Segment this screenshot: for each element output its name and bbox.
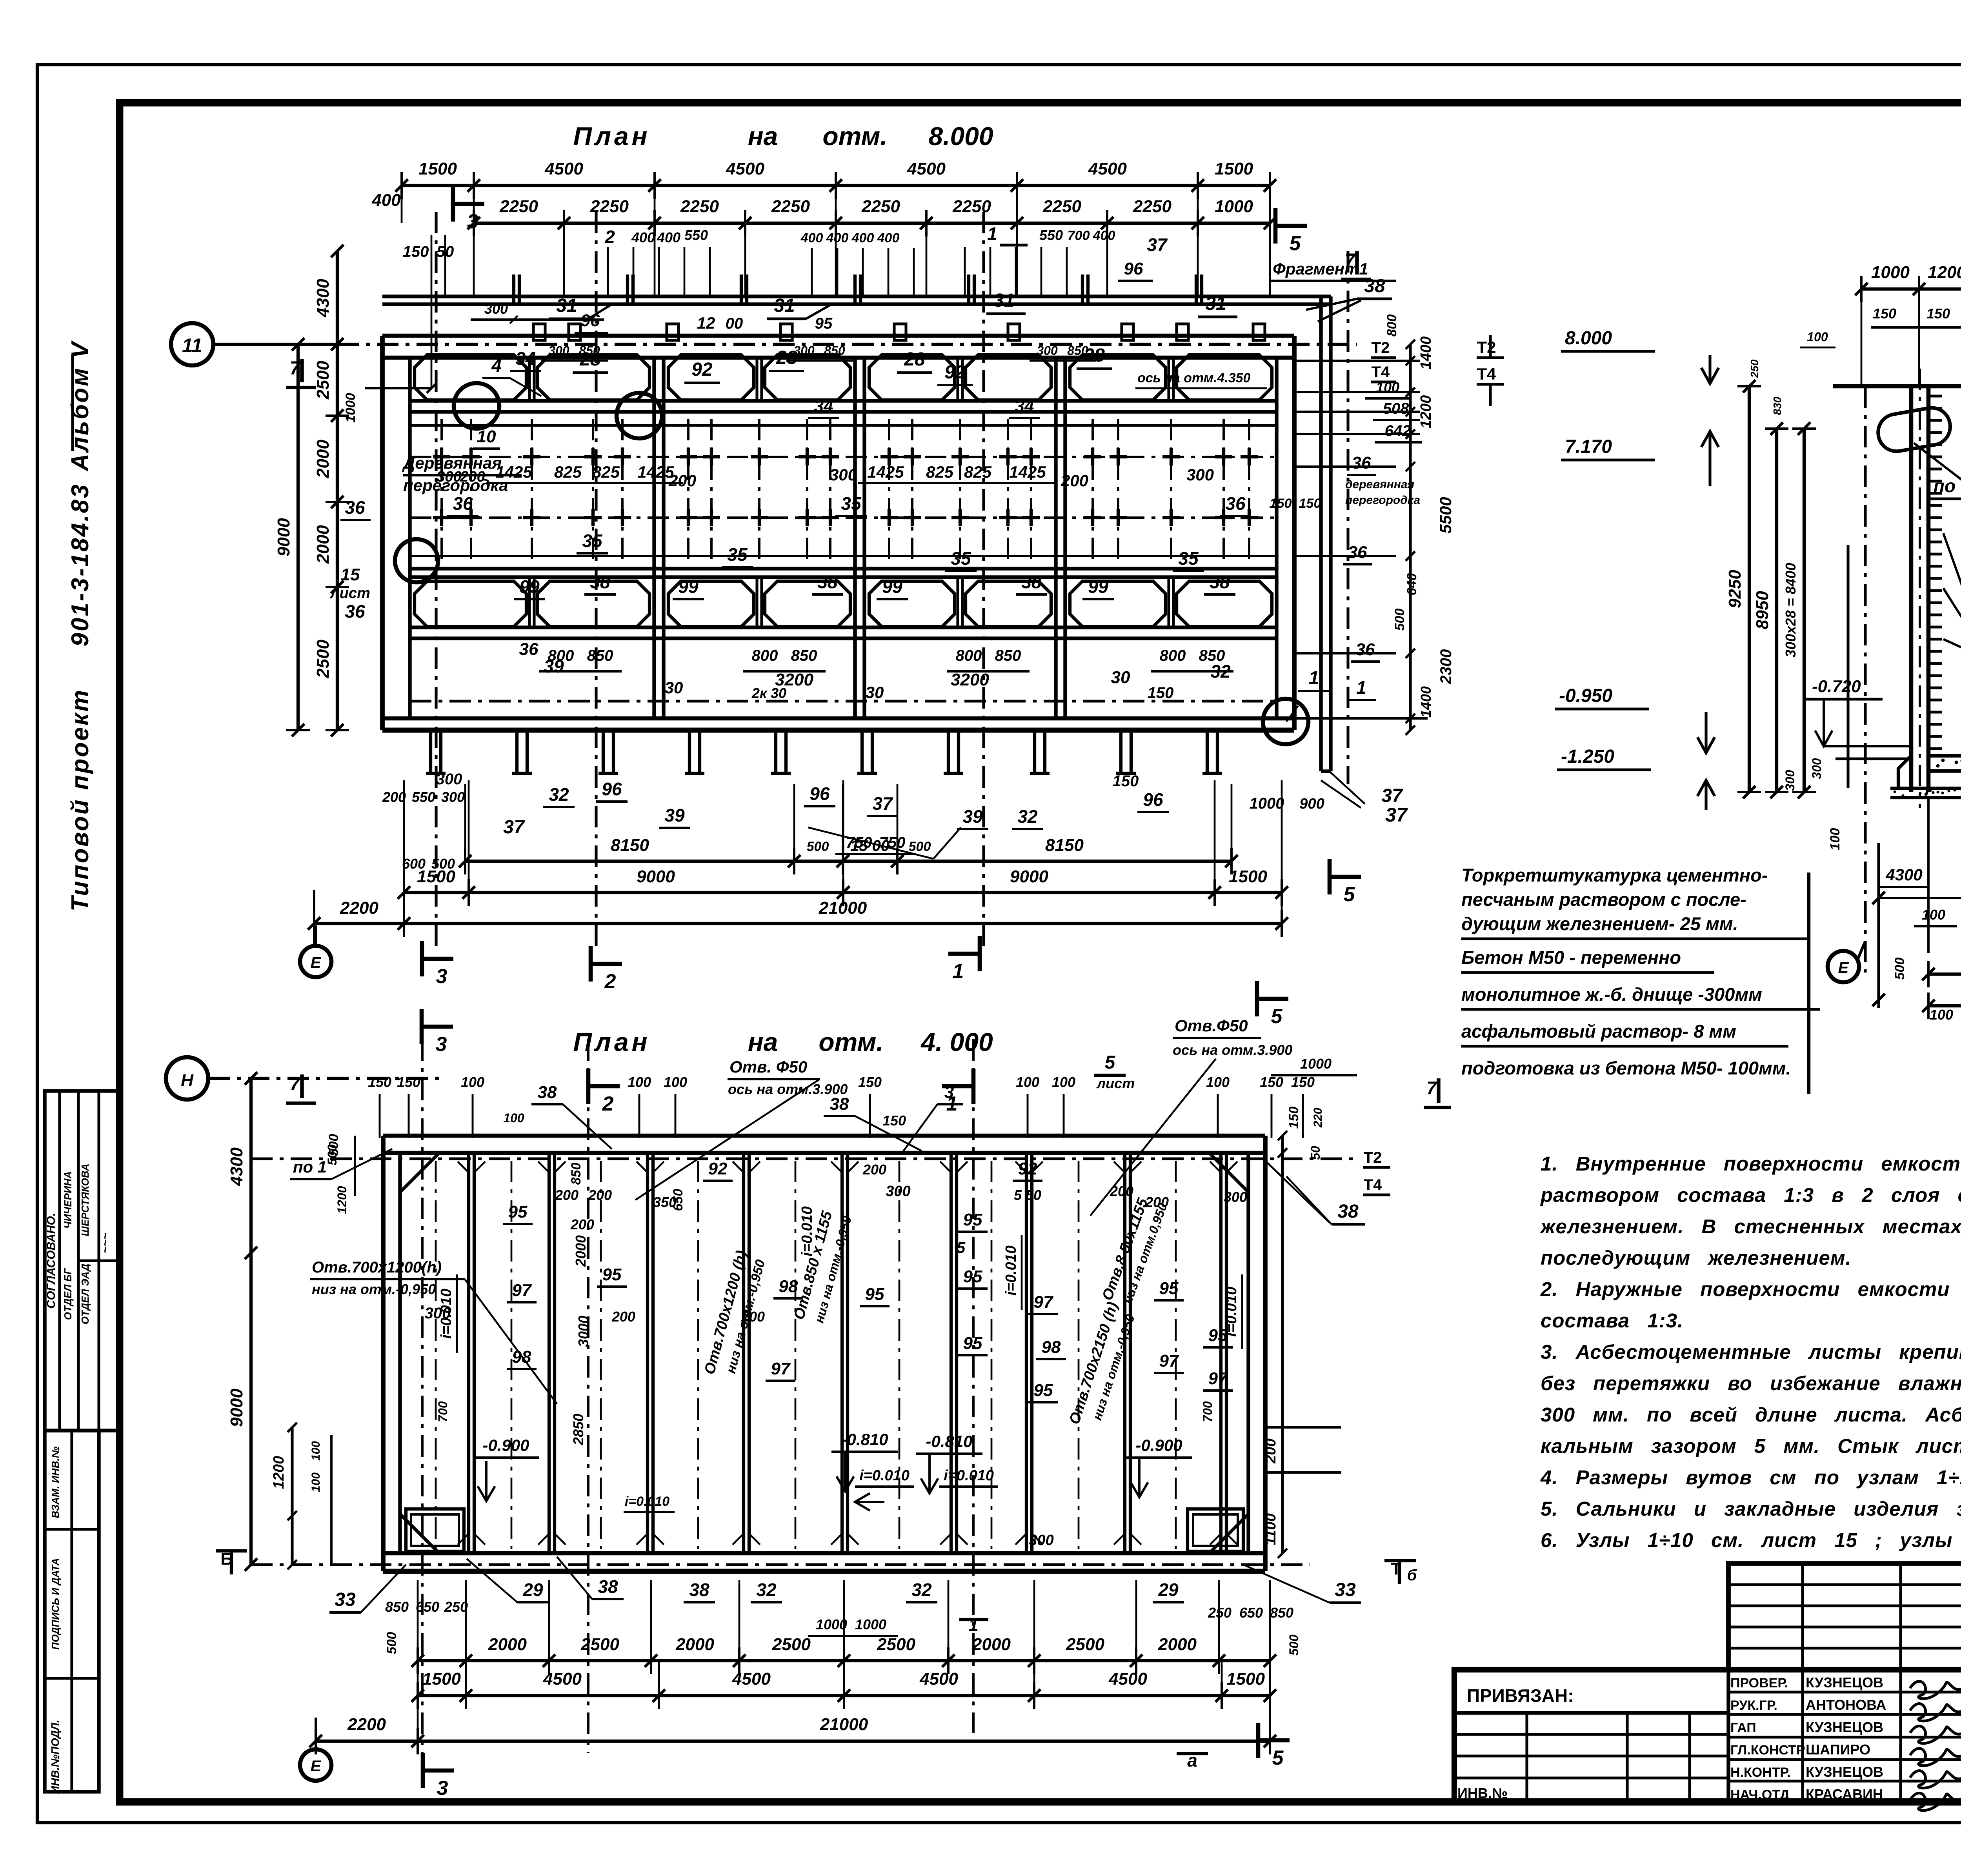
svg-text:21000: 21000	[820, 1715, 868, 1734]
svg-text:перегородка: перегородка	[1345, 494, 1420, 507]
svg-text:3: 3	[436, 1033, 447, 1056]
svg-text:2500: 2500	[580, 1635, 619, 1654]
svg-text:39: 39	[544, 656, 564, 676]
svg-text:Торкретштукатурка цементно-: Торкретштукатурка цементно-	[1461, 865, 1768, 885]
svg-text:33: 33	[335, 1589, 356, 1610]
svg-text:36: 36	[1356, 640, 1375, 659]
svg-text:300: 300	[425, 1305, 451, 1322]
svg-text:97: 97	[1208, 1369, 1228, 1388]
svg-text:300: 300	[484, 301, 508, 317]
svg-text:900: 900	[1299, 796, 1324, 812]
svg-text:лист: лист	[1096, 1075, 1135, 1091]
svg-text:кальным зазором 5 мм. Стык: кальным зазором 5 мм. Стык листов не дол…	[1541, 1435, 1961, 1457]
svg-text:НАЧ.ОТД: НАЧ.ОТД	[1730, 1787, 1789, 1802]
svg-text:30: 30	[866, 683, 884, 702]
svg-text:5: 5	[1290, 232, 1301, 255]
svg-text:500: 500	[1892, 958, 1907, 980]
svg-text:АНТОНОВА: АНТОНОВА	[1806, 1697, 1886, 1713]
svg-text:б: б	[1407, 1567, 1417, 1584]
svg-text:последующим железнением.: последующим железнением.	[1541, 1247, 1852, 1269]
svg-text:38: 38	[590, 572, 610, 592]
svg-text:1000: 1000	[1300, 1056, 1332, 1072]
svg-text:2200: 2200	[347, 1715, 386, 1734]
svg-text:по 1: по 1	[293, 1158, 327, 1176]
svg-text:1: 1	[953, 960, 964, 983]
svg-text:4. 000: 4. 000	[920, 1027, 993, 1056]
svg-text:850: 850	[587, 647, 613, 664]
svg-text:низ на отм.-0,950: низ на отм.-0,950	[312, 1281, 436, 1297]
svg-text:850: 850	[569, 1163, 584, 1185]
svg-text:400: 400	[800, 231, 823, 245]
svg-text:650: 650	[671, 1189, 686, 1211]
svg-text:96: 96	[1124, 259, 1143, 278]
svg-text:2250: 2250	[680, 197, 719, 216]
svg-text:00: 00	[726, 315, 743, 332]
svg-text:36: 36	[519, 640, 538, 659]
svg-text:2: 2	[604, 970, 616, 993]
svg-text:32: 32	[1017, 806, 1038, 827]
svg-text:36: 36	[1352, 453, 1371, 473]
svg-text:1200: 1200	[1418, 395, 1434, 429]
svg-text:1100: 1100	[1262, 1513, 1279, 1545]
svg-text:4300: 4300	[1885, 865, 1922, 884]
svg-text:300: 300	[1224, 1189, 1247, 1205]
svg-text:ОТДЕЛ ЭАД: ОТДЕЛ ЭАД	[79, 1263, 91, 1324]
svg-text:1: 1	[987, 224, 997, 244]
svg-text:100: 100	[1052, 1074, 1075, 1090]
svg-text:850: 850	[1270, 1605, 1293, 1621]
svg-text:8.000: 8.000	[1565, 328, 1612, 349]
svg-text:300: 300	[830, 465, 857, 484]
svg-text:34: 34	[814, 396, 833, 416]
svg-text:2250: 2250	[1133, 197, 1172, 216]
svg-text:План: План	[573, 122, 650, 151]
svg-text:95: 95	[508, 1202, 528, 1222]
svg-text:100: 100	[628, 1074, 651, 1090]
svg-text:1425: 1425	[495, 463, 532, 481]
svg-text:220: 220	[1312, 1108, 1324, 1128]
svg-text:99: 99	[1088, 576, 1108, 597]
svg-text:500: 500	[326, 1134, 341, 1156]
svg-text:2300: 2300	[1437, 649, 1455, 685]
svg-text:38: 38	[538, 1083, 557, 1102]
svg-text:ЧИЧЕРИНА: ЧИЧЕРИНА	[62, 1171, 74, 1229]
svg-text:ШЕРСТЯКОВА: ШЕРСТЯКОВА	[79, 1163, 91, 1236]
svg-text:100: 100	[1016, 1074, 1039, 1090]
svg-text:Е: Е	[1838, 959, 1849, 976]
svg-text:ось на отм.4.350: ось на отм.4.350	[1137, 371, 1251, 385]
svg-text:200: 200	[382, 789, 406, 805]
svg-text:2500: 2500	[877, 1635, 915, 1654]
svg-text:800: 800	[956, 647, 982, 664]
svg-text:200: 200	[1110, 1183, 1133, 1199]
svg-text:2250: 2250	[952, 197, 991, 216]
svg-text:36: 36	[453, 493, 473, 514]
svg-text:i=0.010: i=0.010	[944, 1467, 994, 1484]
svg-text:36: 36	[345, 497, 365, 518]
svg-text:ПРОВЕР.: ПРОВЕР.	[1730, 1676, 1788, 1691]
svg-text:32: 32	[1210, 661, 1231, 682]
svg-text:150: 150	[1270, 496, 1292, 511]
svg-text:СОГЛАСОВАНО.: СОГЛАСОВАНО.	[45, 1213, 58, 1309]
svg-text:9250: 9250	[1725, 570, 1745, 608]
svg-text:КУЗНЕЦОВ: КУЗНЕЦОВ	[1806, 1674, 1883, 1691]
svg-text:2000: 2000	[313, 440, 333, 478]
svg-text:400: 400	[631, 229, 655, 245]
svg-text:9000: 9000	[274, 518, 293, 556]
svg-text:29: 29	[1158, 1580, 1179, 1600]
svg-text:3: 3	[467, 210, 478, 233]
svg-text:100: 100	[1206, 1074, 1230, 1090]
svg-text:1500: 1500	[1229, 867, 1267, 886]
svg-text:4300: 4300	[313, 279, 333, 318]
svg-text:38: 38	[689, 1580, 709, 1600]
svg-text:на: на	[748, 1027, 778, 1056]
svg-text:2000: 2000	[488, 1635, 527, 1654]
svg-text:1000: 1000	[816, 1616, 847, 1632]
svg-text:200: 200	[555, 1187, 578, 1203]
svg-text:1000: 1000	[1871, 263, 1910, 282]
svg-text:100: 100	[1922, 907, 1945, 923]
svg-text:35: 35	[1178, 548, 1199, 569]
svg-text:1200: 1200	[335, 1186, 349, 1214]
svg-text:640: 640	[1404, 573, 1419, 596]
svg-text:~~~: ~~~	[99, 1233, 112, 1254]
svg-text:37: 37	[1147, 234, 1168, 255]
svg-text:30: 30	[1111, 668, 1130, 687]
svg-text:800: 800	[1160, 647, 1186, 664]
svg-text:100: 100	[1807, 330, 1828, 344]
svg-text:400: 400	[826, 231, 849, 245]
svg-text:36: 36	[1225, 493, 1246, 514]
svg-text:РУК.ГР.: РУК.ГР.	[1730, 1698, 1777, 1713]
svg-text:400: 400	[877, 231, 900, 245]
svg-text:642: 642	[1385, 422, 1411, 440]
svg-text:1500: 1500	[422, 1669, 461, 1689]
svg-text:2: 2	[604, 227, 615, 247]
svg-text:7: 7	[1345, 250, 1356, 271]
svg-text:5. Сальники и закладные: 5. Сальники и закладные изделия заложить…	[1541, 1498, 1961, 1520]
svg-text:36: 36	[345, 601, 365, 622]
svg-text:2000: 2000	[573, 1235, 589, 1267]
svg-text:i=0.010: i=0.010	[625, 1494, 669, 1509]
svg-text:96: 96	[810, 783, 830, 804]
svg-text:2000: 2000	[313, 525, 333, 564]
svg-text:36: 36	[1348, 543, 1367, 562]
svg-text:700: 700	[1068, 228, 1090, 243]
svg-text:100: 100	[309, 1472, 322, 1492]
svg-text:35: 35	[727, 544, 748, 565]
svg-text:650: 650	[416, 1599, 439, 1615]
svg-text:ось на отм.3.900: ось на отм.3.900	[1173, 1042, 1292, 1058]
svg-text:подготовка из бетона М50- 100м: подготовка из бетона М50- 100мм.	[1461, 1058, 1791, 1078]
svg-text:97: 97	[771, 1359, 791, 1378]
svg-text:-1.250: -1.250	[1561, 746, 1614, 767]
svg-text:Отв. Ф50: Отв. Ф50	[729, 1058, 807, 1076]
svg-text:95: 95	[963, 1334, 982, 1353]
svg-text:97: 97	[1034, 1292, 1054, 1312]
svg-text:ИНВ.№: ИНВ.№	[1457, 1785, 1508, 1801]
svg-text:2500: 2500	[772, 1635, 811, 1654]
svg-text:отм.: отм.	[819, 1027, 883, 1056]
svg-text:150: 150	[1260, 1074, 1283, 1090]
svg-text:92: 92	[691, 359, 713, 380]
svg-text:8.000: 8.000	[928, 122, 993, 151]
svg-text:38: 38	[1021, 572, 1042, 592]
svg-text:5500: 5500	[1436, 497, 1455, 533]
svg-text:500: 500	[807, 839, 829, 854]
svg-text:98: 98	[1042, 1338, 1061, 1357]
svg-text:200: 200	[570, 1216, 594, 1232]
svg-text:Т4: Т4	[1477, 365, 1496, 383]
svg-text:4: 4	[491, 355, 502, 376]
svg-text:2. Наружные поверхности емко: 2. Наружные поверхности емкости затереть…	[1540, 1278, 1961, 1300]
svg-text:Т2: Т2	[1477, 338, 1496, 356]
svg-text:100: 100	[309, 1441, 322, 1461]
svg-text:1000: 1000	[343, 393, 358, 423]
svg-text:Отв.700х1200(h): Отв.700х1200(h)	[312, 1259, 442, 1276]
svg-text:1500: 1500	[1215, 159, 1253, 178]
svg-text:Т2: Т2	[1372, 339, 1390, 356]
svg-text:37: 37	[872, 793, 893, 814]
svg-text:4500: 4500	[907, 159, 946, 178]
svg-text:2к 30: 2к 30	[751, 685, 786, 701]
svg-text:400: 400	[371, 191, 401, 210]
svg-text:500: 500	[384, 1632, 399, 1654]
svg-text:3200: 3200	[951, 670, 989, 689]
svg-text:1: 1	[968, 1615, 979, 1635]
svg-text:850: 850	[1067, 344, 1088, 358]
svg-text:Т4: Т4	[1372, 364, 1390, 381]
svg-text:7: 7	[1426, 1078, 1437, 1098]
svg-text:92: 92	[944, 362, 966, 383]
svg-text:9000: 9000	[1010, 867, 1048, 886]
svg-text:100: 100	[664, 1074, 687, 1090]
svg-text:11: 11	[182, 334, 202, 356]
svg-text:500: 500	[1287, 1634, 1301, 1656]
svg-text:4500: 4500	[543, 1669, 582, 1689]
svg-text:2250: 2250	[499, 197, 538, 216]
svg-text:Альбом V: Альбом V	[67, 340, 94, 472]
svg-text:4500: 4500	[919, 1669, 958, 1689]
svg-text:2000: 2000	[1158, 1635, 1197, 1654]
svg-text:150: 150	[1113, 773, 1139, 790]
svg-text:1400: 1400	[1418, 336, 1434, 370]
svg-text:3: 3	[436, 965, 448, 988]
svg-text:План: План	[573, 1027, 650, 1056]
svg-text:5: 5	[1344, 883, 1355, 906]
svg-text:150: 150	[1148, 684, 1174, 702]
svg-text:1200: 1200	[271, 1456, 287, 1489]
svg-text:38: 38	[830, 1094, 849, 1114]
svg-text:97: 97	[1159, 1351, 1179, 1371]
svg-text:508: 508	[1383, 400, 1409, 417]
svg-text:монолитное ж.-б. днище -300мм: монолитное ж.-б. днище -300мм	[1461, 984, 1762, 1005]
svg-text:1500: 1500	[418, 159, 457, 178]
svg-text:Типовой проект: Типовой проект	[67, 689, 94, 912]
svg-text:4500: 4500	[1088, 159, 1127, 178]
svg-text:12: 12	[697, 314, 715, 332]
svg-text:-0.950: -0.950	[1559, 685, 1612, 706]
svg-text:800: 800	[1384, 314, 1399, 337]
svg-text:150: 150	[1926, 305, 1950, 322]
svg-text:700: 700	[1201, 1401, 1215, 1422]
svg-text:38: 38	[817, 572, 838, 592]
svg-text:5 50: 5 50	[1014, 1187, 1041, 1203]
svg-text:2000: 2000	[972, 1635, 1011, 1654]
svg-text:2250: 2250	[1042, 197, 1081, 216]
svg-text:100: 100	[503, 1111, 524, 1125]
svg-text:ОТДЕЛ БГ: ОТДЕЛ БГ	[62, 1268, 74, 1320]
svg-text:150: 150	[397, 1074, 420, 1090]
svg-text:825: 825	[964, 463, 992, 481]
svg-text:830: 830	[1771, 396, 1783, 415]
svg-text:95: 95	[1208, 1326, 1228, 1345]
svg-text:2500: 2500	[313, 640, 333, 678]
svg-text:2500: 2500	[1066, 1635, 1104, 1654]
svg-text:31: 31	[993, 290, 1014, 311]
svg-text:250: 250	[444, 1599, 468, 1615]
svg-text:7: 7	[290, 1074, 301, 1094]
svg-text:39: 39	[962, 806, 983, 827]
svg-text:Т2: Т2	[1364, 1149, 1382, 1166]
svg-text:5: 5	[1272, 1747, 1284, 1769]
svg-text:Е: Е	[311, 1758, 322, 1775]
svg-text:Е: Е	[311, 954, 322, 971]
svg-text:1200: 1200	[1928, 263, 1961, 282]
svg-text:КРАСАВИН: КРАСАВИН	[1806, 1786, 1883, 1802]
svg-text:2850: 2850	[570, 1414, 586, 1445]
svg-text:200: 200	[588, 1187, 612, 1203]
svg-text:песчаным раствором с после-: песчаным раствором с после-	[1461, 889, 1746, 910]
svg-text:КУЗНЕЦОВ: КУЗНЕЦОВ	[1806, 1719, 1883, 1735]
svg-text:95: 95	[1159, 1279, 1179, 1298]
svg-text:300 мм. по всей длине лист: 300 мм. по всей длине листа. Асбестоцеме…	[1541, 1403, 1961, 1426]
svg-text:2000: 2000	[675, 1635, 714, 1654]
svg-text:8150: 8150	[611, 836, 649, 855]
svg-text:96: 96	[1143, 789, 1163, 810]
svg-text:1400: 1400	[1418, 686, 1434, 718]
svg-text:1000: 1000	[1215, 197, 1253, 216]
svg-text:2250: 2250	[771, 197, 810, 216]
svg-text:2200: 2200	[340, 898, 378, 918]
svg-text:95: 95	[865, 1285, 884, 1304]
svg-text:6. Узлы 1÷10 см. лист 15 ;: 6. Узлы 1÷10 см. лист 15 ; узлы 11÷23 см…	[1541, 1529, 1961, 1551]
svg-text:500: 500	[909, 839, 931, 854]
svg-text:5: 5	[957, 1239, 966, 1256]
svg-text:300: 300	[1186, 465, 1214, 484]
svg-text:37: 37	[503, 817, 525, 838]
svg-text:38: 38	[1210, 572, 1230, 592]
svg-text:32: 32	[911, 1580, 932, 1600]
svg-text:39: 39	[664, 805, 685, 825]
svg-text:3: 3	[437, 1777, 448, 1800]
svg-text:150: 150	[1873, 305, 1896, 322]
svg-text:150: 150	[1286, 1107, 1301, 1129]
svg-text:железнением. В стесненных м: железнением. В стесненных местах штукату…	[1539, 1215, 1961, 1238]
svg-text:ШАПИРО: ШАПИРО	[1806, 1741, 1870, 1758]
svg-text:38: 38	[598, 1576, 618, 1597]
svg-text:850: 850	[791, 647, 817, 664]
svg-text:4500: 4500	[1108, 1669, 1147, 1689]
svg-text:Т4: Т4	[1364, 1176, 1382, 1194]
svg-text:1: 1	[1309, 668, 1319, 689]
svg-text:200: 200	[611, 1309, 635, 1325]
svg-text:i=0.010: i=0.010	[1003, 1245, 1019, 1296]
svg-text:1000: 1000	[855, 1616, 886, 1632]
svg-text:отм.: отм.	[822, 122, 887, 151]
svg-text:99: 99	[882, 576, 902, 597]
svg-text:10: 10	[477, 427, 496, 446]
svg-text:99: 99	[678, 576, 699, 597]
svg-text:3000: 3000	[575, 1316, 591, 1347]
svg-text:раствором состава 1:3 в 2: раствором состава 1:3 в 2 слоя общей тол…	[1540, 1184, 1961, 1206]
svg-text:8150: 8150	[1045, 836, 1084, 855]
svg-text:95: 95	[1034, 1381, 1053, 1400]
svg-text:5: 5	[1271, 1005, 1283, 1028]
svg-text:550: 550	[412, 789, 435, 805]
svg-text:400: 400	[851, 231, 874, 245]
svg-text:-0.900: -0.900	[482, 1436, 529, 1454]
svg-text:96: 96	[602, 779, 622, 799]
svg-text:300: 300	[1783, 770, 1797, 791]
svg-text:300: 300	[1029, 1532, 1053, 1549]
svg-text:30: 30	[665, 678, 683, 697]
svg-text:дующим железнением- 25 мм.: дующим железнением- 25 мм.	[1461, 913, 1738, 934]
svg-text:37: 37	[1385, 804, 1408, 826]
svg-text:Отв.Ф50: Отв.Ф50	[1175, 1016, 1248, 1035]
svg-text:150: 150	[368, 1074, 391, 1090]
svg-text:ГЛ.КОНСТР: ГЛ.КОНСТР	[1730, 1743, 1805, 1758]
svg-text:150: 150	[1299, 496, 1321, 511]
svg-text:9000: 9000	[637, 867, 675, 886]
svg-text:7.170: 7.170	[1565, 436, 1612, 457]
svg-text:300: 300	[436, 771, 462, 788]
svg-text:825: 825	[592, 463, 620, 481]
svg-text:4. Размеры вутов см: 4. Размеры вутов см по узлам 1÷10 лист 1…	[1540, 1466, 1961, 1489]
svg-text:4500: 4500	[732, 1669, 771, 1689]
svg-text:15 00: 15 00	[850, 837, 890, 854]
svg-text:по 12: по 12	[1934, 476, 1961, 496]
svg-text:29: 29	[522, 1580, 543, 1600]
svg-text:300: 300	[886, 1183, 910, 1200]
svg-text:100: 100	[1930, 1007, 1953, 1023]
svg-text:92: 92	[1018, 1159, 1037, 1178]
svg-text:34: 34	[1015, 396, 1034, 416]
svg-text:7: 7	[290, 358, 301, 379]
svg-text:-0.810: -0.810	[841, 1430, 888, 1449]
svg-text:150: 150	[882, 1113, 906, 1129]
svg-text:825: 825	[554, 463, 582, 481]
svg-text:901-3-184.83: 901-3-184.83	[67, 483, 94, 647]
svg-text:95: 95	[602, 1265, 622, 1284]
svg-text:35: 35	[841, 493, 862, 514]
svg-text:150: 150	[1291, 1074, 1315, 1090]
svg-text:200: 200	[1061, 471, 1088, 490]
svg-text:550: 550	[684, 227, 708, 243]
svg-text:150: 150	[403, 243, 429, 260]
svg-text:300: 300	[1037, 344, 1058, 358]
svg-text:200: 200	[1262, 1438, 1279, 1463]
svg-text:850: 850	[995, 647, 1021, 664]
svg-text:1. Внутренние поверхности: 1. Внутренние поверхности емкости торкре…	[1541, 1153, 1961, 1175]
svg-text:550: 550	[1039, 227, 1063, 243]
svg-text:без перетяжки во избежание: без перетяжки во избежание влажностных д…	[1541, 1372, 1961, 1394]
svg-text:32: 32	[756, 1580, 777, 1600]
svg-text:97: 97	[512, 1281, 532, 1300]
svg-text:1000: 1000	[1250, 795, 1284, 812]
svg-text:300: 300	[793, 344, 815, 358]
